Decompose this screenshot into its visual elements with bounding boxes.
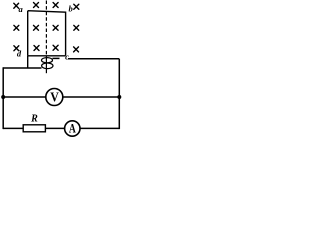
wire right vertical — [118, 59, 120, 129]
svg-text:d: d — [17, 49, 22, 59]
wire bottom row — [3, 127, 119, 129]
coil loop abcd — [28, 11, 66, 56]
wire stub from upper ring / brush — [53, 57, 60, 59]
slip ring S1 — [42, 58, 53, 63]
node junction right — [117, 95, 121, 99]
field cross row1 col3 — [53, 3, 58, 8]
rotation axis (dashed) — [45, 1, 47, 56]
field cross row3 col2 — [34, 46, 39, 51]
field cross row1 col4 — [74, 4, 79, 9]
node junction left — [1, 95, 5, 99]
field cross row2 col1 — [14, 25, 19, 30]
resistor R box — [23, 125, 45, 132]
wire voltmeter row — [3, 96, 119, 98]
field cross row3 col1 — [14, 46, 19, 51]
field cross row1 col1 — [14, 3, 19, 8]
voltmeter U1 circle — [46, 89, 63, 106]
field cross row1 col2 — [34, 3, 39, 8]
field cross row2 col4 — [74, 25, 79, 30]
svg-text:V: V — [50, 89, 59, 105]
wire left vertical — [2, 67, 4, 129]
field cross row2 col3 — [53, 25, 58, 30]
shaft through slip rings — [45, 56, 47, 73]
svg-text:A: A — [69, 123, 76, 136]
svg-text:a: a — [18, 4, 23, 14]
wire from brush to right side — [68, 58, 119, 60]
slip ring S2 — [42, 63, 53, 69]
svg-text:c: c — [65, 51, 69, 61]
field cross row2 col2 — [34, 25, 39, 30]
svg-text:R: R — [30, 113, 38, 124]
wire from lower ring / brush to left — [3, 67, 41, 69]
wire lead from d down to brush wire — [27, 56, 29, 68]
ammeter A circle — [65, 121, 80, 136]
field cross row3 col3 — [53, 45, 58, 50]
svg-text:b: b — [68, 3, 72, 13]
field cross row3 col4 — [74, 47, 79, 52]
